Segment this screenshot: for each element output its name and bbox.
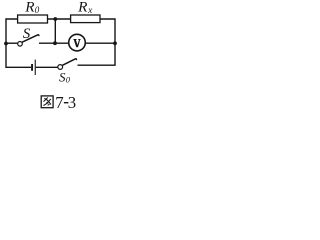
svg-text:x: x	[87, 6, 93, 16]
svg-text:0: 0	[35, 5, 40, 15]
svg-text:R: R	[77, 0, 88, 15]
svg-text:0: 0	[66, 75, 71, 85]
svg-text:3: 3	[68, 93, 76, 112]
svg-text:R: R	[24, 0, 35, 16]
svg-text:7: 7	[55, 93, 63, 112]
svg-text:S: S	[23, 26, 31, 42]
